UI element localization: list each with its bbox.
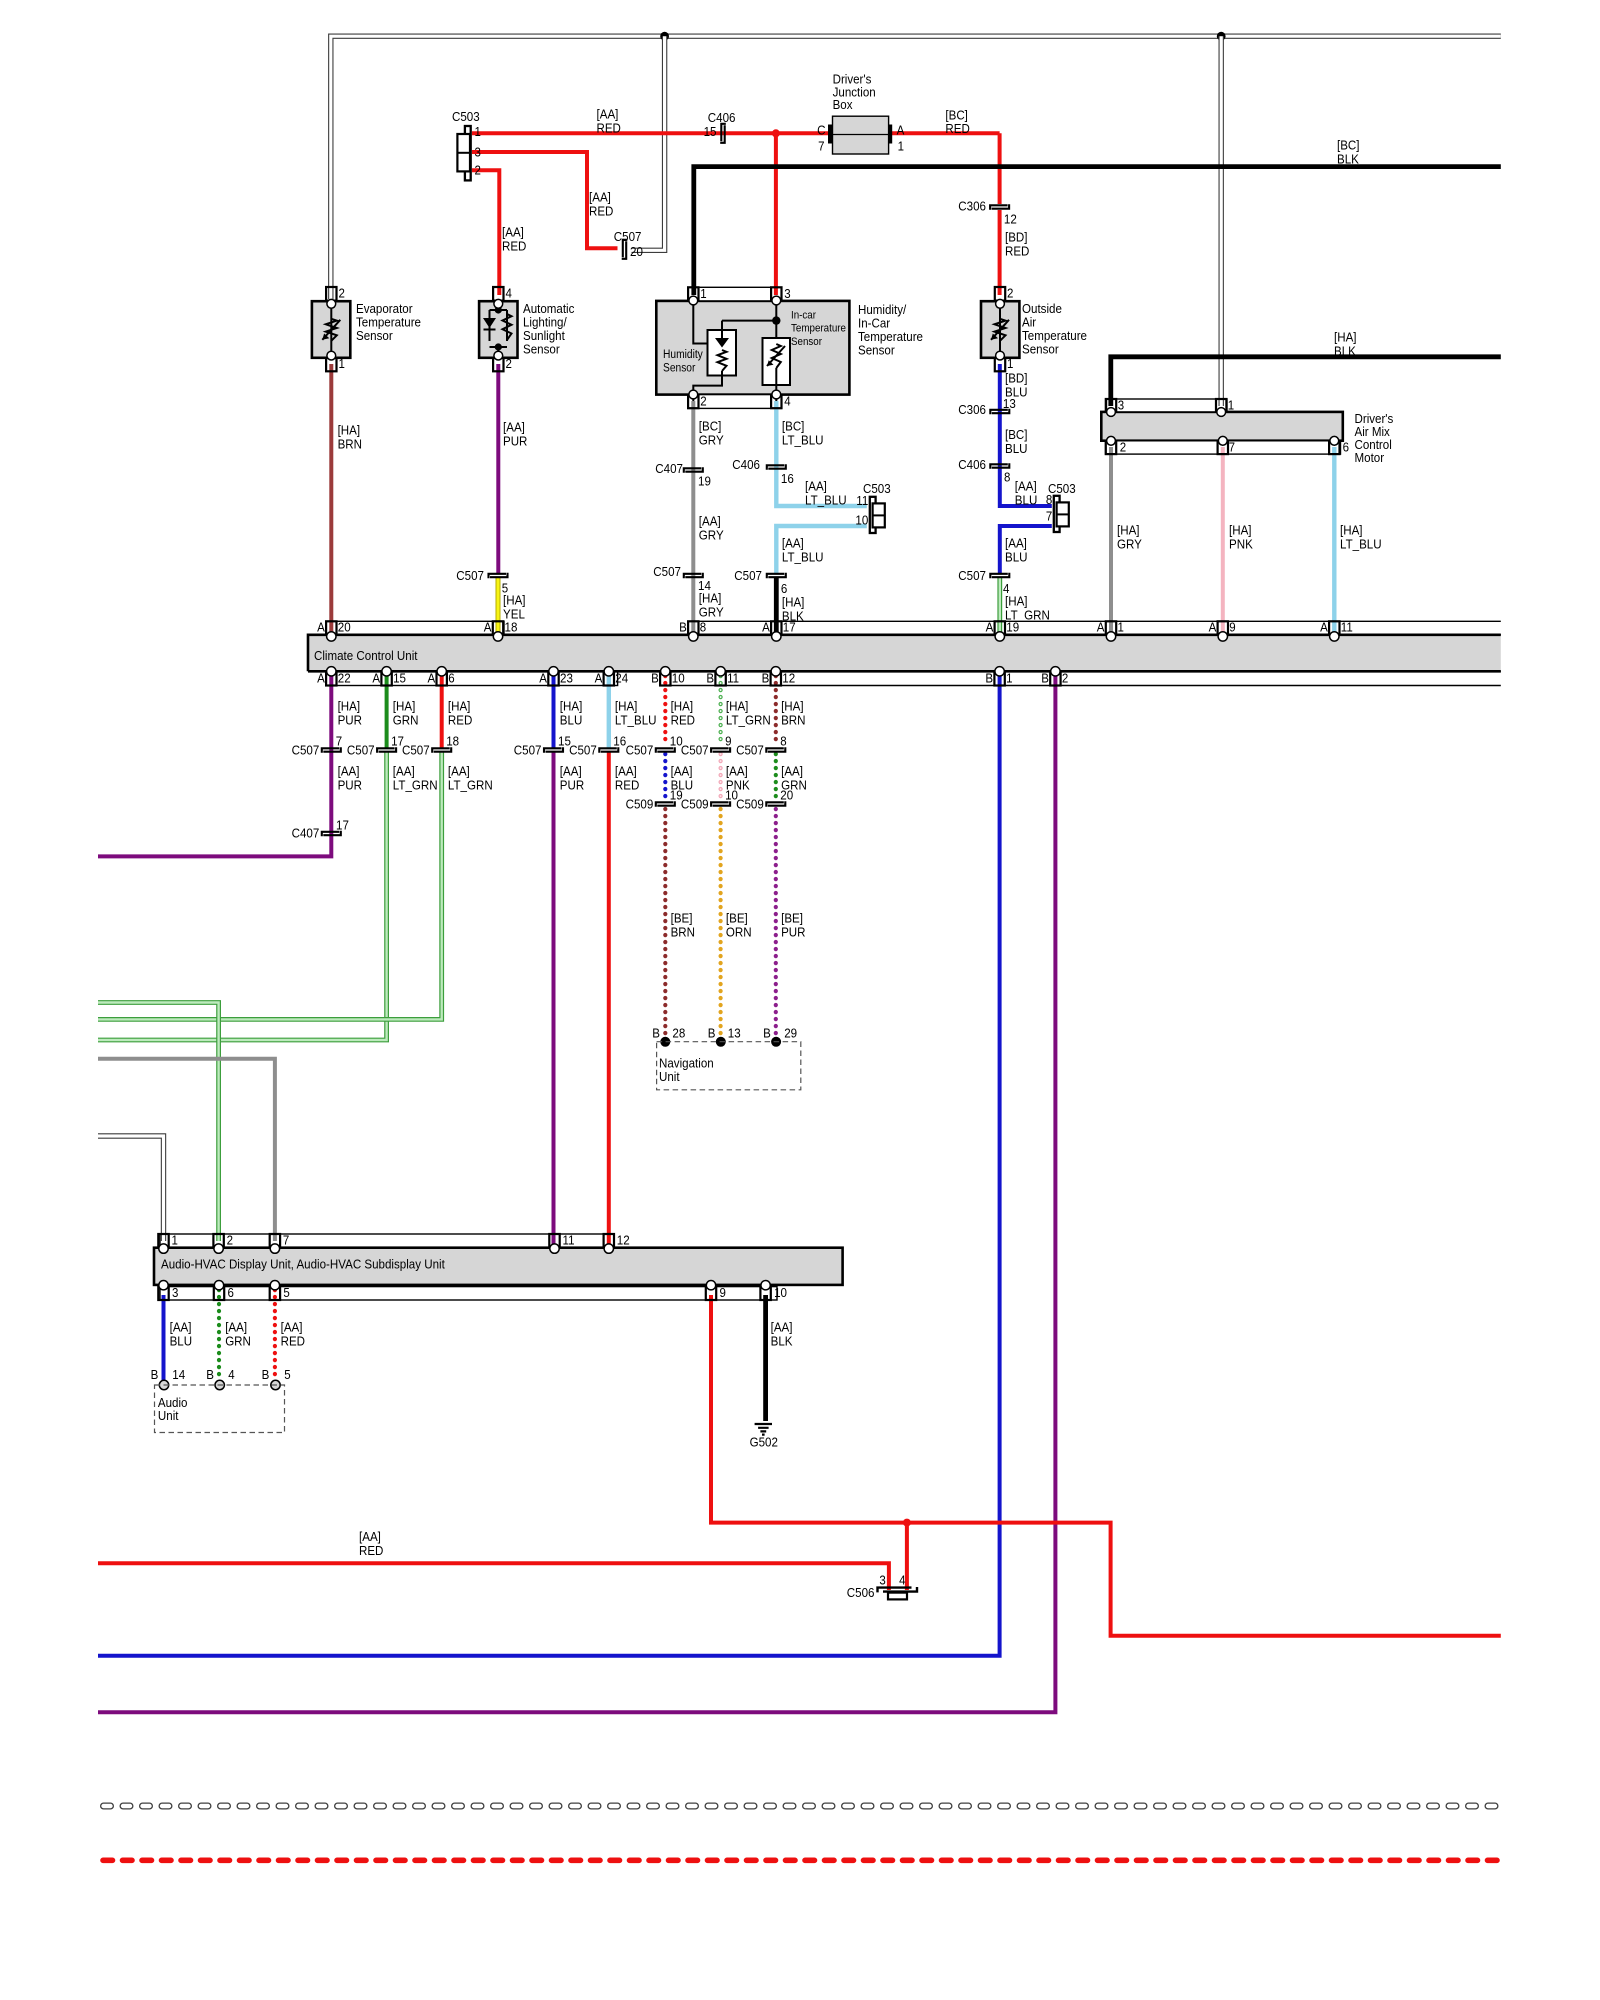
junction dot on white rail at x=1221.2 xyxy=(1217,32,1226,41)
pin strip: air mix motor top xyxy=(1107,399,1228,412)
svg-text:BLK: BLK xyxy=(1337,151,1359,166)
pin circle component (331.3,355.6) xyxy=(327,351,336,360)
svg-text:C406: C406 xyxy=(732,457,760,472)
pin strip: climate control unit bottom-right (B10..B2) xyxy=(660,672,1501,686)
svg-text:C: C xyxy=(817,123,825,138)
audio unit terminal B14 xyxy=(159,1380,168,1389)
svg-text:7: 7 xyxy=(336,734,342,749)
svg-text:Sensor: Sensor xyxy=(356,328,393,343)
svg-text:17: 17 xyxy=(783,620,796,635)
wire GRY from left margin to audio-hvac pin 7 xyxy=(98,1059,275,1241)
pin circle component (1111,412) xyxy=(1107,408,1116,417)
connector C407-19 xyxy=(684,468,702,473)
svg-text:3: 3 xyxy=(879,1573,885,1588)
svg-text:C507: C507 xyxy=(681,743,709,758)
svg-text:3: 3 xyxy=(475,145,481,160)
svg-text:GRY: GRY xyxy=(1117,536,1142,551)
connector C509-10 xyxy=(711,802,729,807)
pin bracket evaporator pin 2 xyxy=(326,287,336,301)
svg-text:B: B xyxy=(706,670,714,685)
pin circle climate bottom x=331.3 xyxy=(327,667,336,676)
pin bracket climate B10 xyxy=(660,672,670,686)
svg-text:Unit: Unit xyxy=(659,1069,680,1084)
connector C507-5 xyxy=(489,574,507,579)
svg-text:23: 23 xyxy=(560,670,573,685)
dotted wire [BE] ORN from C509-10 to navigation unit pin B13 xyxy=(718,809,722,1036)
pin bracket audio-hvac bottom pin 6 xyxy=(214,1287,224,1300)
svg-text:PNK: PNK xyxy=(1229,536,1253,551)
svg-text:BRN: BRN xyxy=(338,436,362,451)
svg-text:6: 6 xyxy=(228,1285,234,1300)
pin circle audio-hvac bottom x=219 xyxy=(214,1281,223,1290)
pin circle climate bottom x=999.6 xyxy=(995,667,1004,676)
pin bracket climate B12 xyxy=(771,672,781,686)
svg-text:B: B xyxy=(1041,670,1049,685)
svg-text:1: 1 xyxy=(898,139,904,154)
pin circle climate top x=776.3 xyxy=(772,632,781,641)
svg-text:10: 10 xyxy=(672,670,685,685)
pin bracket audio-hvac top pin 2 xyxy=(213,1234,223,1248)
connector C507-17 xyxy=(377,748,395,753)
svg-text:GRN: GRN xyxy=(225,1333,251,1348)
pin bracket climate A22 xyxy=(326,672,336,686)
pin circle climate bottom x=386.6 xyxy=(382,667,391,676)
wire [HA] LT_BLU from climate pin A24 to C507-16 xyxy=(607,675,611,748)
dotted wire [HA] BRN from climate pin B12 to C507-8 xyxy=(774,676,778,745)
svg-text:1: 1 xyxy=(700,286,706,301)
svg-text:8: 8 xyxy=(700,620,706,635)
pin circle component (693.3,300.5) xyxy=(689,296,698,305)
junction dot on white rail at x=664.6 xyxy=(660,32,669,41)
pin circle component (498.3,303.8) xyxy=(494,299,503,308)
pin bracket audio-hvac bottom pin 5 xyxy=(270,1287,280,1300)
wire: white double-line power rail from evaporator pin 2 up and across the top xyxy=(331,36,1501,299)
connector C509-19 xyxy=(656,802,674,807)
svg-text:A: A xyxy=(1209,620,1217,635)
svg-text:PUR: PUR xyxy=(781,924,805,939)
svg-text:C507: C507 xyxy=(402,743,430,758)
pin bracket humidity pin 4 xyxy=(771,395,781,409)
pin strip: humidity sensor bottom (pins 2,4) xyxy=(688,395,781,409)
pin bracket climate A17 xyxy=(771,621,781,634)
svg-text:RED: RED xyxy=(281,1333,305,1348)
svg-text:RED: RED xyxy=(502,238,526,253)
junction dot red at (775.9,133.3) xyxy=(772,129,780,137)
wire [BD]/[BC] BLU from outside air sensor pin 1 down, right to C503 pin 8 xyxy=(1000,364,1052,506)
pin circle climate bottom x=1055.4 xyxy=(1051,667,1060,676)
svg-text:B: B xyxy=(763,1026,771,1041)
pin strip: climate control unit bottom-left (A22..A24) xyxy=(326,672,618,686)
svg-text:A: A xyxy=(539,670,547,685)
pin bracket climate B2 xyxy=(1050,672,1060,686)
wire [HA]/[AA] PUR from climate pin A22 down through C507-7 and C407-17, left to margin xyxy=(98,675,331,856)
connector C509-20 xyxy=(766,802,784,807)
svg-text:B: B xyxy=(762,670,770,685)
svg-text:4: 4 xyxy=(899,1573,905,1588)
svg-text:BLK: BLK xyxy=(1334,343,1356,358)
svg-text:4: 4 xyxy=(228,1367,234,1382)
svg-text:6: 6 xyxy=(448,670,454,685)
svg-text:C507: C507 xyxy=(958,568,986,583)
svg-text:1: 1 xyxy=(339,356,345,371)
pin circle component (498.3,355.6) xyxy=(494,351,503,360)
pin circle audio-hvac top x=218.6 xyxy=(214,1244,223,1253)
svg-text:GRN: GRN xyxy=(393,712,419,727)
svg-text:Humidity: Humidity xyxy=(663,349,703,361)
pin circle component (1000,355.6) xyxy=(996,351,1005,360)
wire [HA] BLU from climate pin A23 to C507-15 xyxy=(552,675,556,748)
svg-text:A: A xyxy=(986,620,994,635)
svg-text:RED: RED xyxy=(448,712,472,727)
wire [HA] BRN from evaporator pin 1 to climate pin A20 xyxy=(329,364,333,632)
pin circle component (1221.2,412) xyxy=(1217,408,1226,417)
svg-text:Sensor: Sensor xyxy=(858,343,895,358)
svg-text:5: 5 xyxy=(283,1285,289,1300)
svg-text:C306: C306 xyxy=(958,199,986,214)
svg-text:A: A xyxy=(372,670,380,685)
svg-text:C406: C406 xyxy=(708,110,736,125)
pin bracket climate A23 xyxy=(548,672,558,686)
wire [AA] BLU from C503 pin 7 left and down to C507-4 xyxy=(1000,526,1052,573)
connector C306-12 xyxy=(990,205,1008,210)
wire: white double-line drop from rail to air mix motor pin 1 xyxy=(1218,36,1223,406)
svg-text:C306: C306 xyxy=(958,402,986,417)
svg-text:12: 12 xyxy=(1004,211,1017,226)
svg-text:C507: C507 xyxy=(456,568,484,583)
pin bracket automatic lighting pin 4 xyxy=(493,287,503,301)
svg-text:C509: C509 xyxy=(626,797,654,812)
pin circle climate top x=999.8 xyxy=(995,632,1004,641)
connector C407-17 xyxy=(322,832,340,837)
navigation unit terminal B13 xyxy=(716,1037,726,1047)
svg-text:Climate Control Unit: Climate Control Unit xyxy=(314,648,418,663)
svg-text:11: 11 xyxy=(1341,620,1353,635)
svg-text:1: 1 xyxy=(475,124,481,139)
pin circle component (1334.3,440.8) xyxy=(1330,436,1339,445)
svg-text:Box: Box xyxy=(833,97,853,112)
svg-text:BLU: BLU xyxy=(1015,492,1038,507)
pin circle climate top x=693.3 xyxy=(689,632,698,641)
pin bracket climate A19 xyxy=(995,621,1005,634)
connector C506 pins 3,4 xyxy=(878,1588,912,1593)
svg-text:C509: C509 xyxy=(736,797,764,812)
in-car temperature sensor element inside humidity box xyxy=(763,338,791,385)
svg-text:BLU: BLU xyxy=(1005,549,1028,564)
pin circle component (693.3,394.5) xyxy=(689,390,698,399)
svg-text:C507: C507 xyxy=(292,743,320,758)
svg-text:A: A xyxy=(897,123,905,138)
svg-text:BRN: BRN xyxy=(781,712,805,727)
pin circle audio-hvac top x=554.5 xyxy=(550,1244,559,1253)
svg-text:22: 22 xyxy=(338,670,351,685)
svg-text:12: 12 xyxy=(617,1232,630,1247)
connector C507-9 xyxy=(711,748,729,753)
pin bracket audio-hvac bottom pin 3 xyxy=(158,1287,168,1300)
svg-text:C507: C507 xyxy=(736,743,764,758)
svg-text:24: 24 xyxy=(615,670,628,685)
svg-text:1: 1 xyxy=(1228,397,1234,412)
svg-text:LT_BLU: LT_BLU xyxy=(782,549,824,564)
audio unit terminal B5 xyxy=(271,1380,280,1389)
pin bracket outside air pin 1 xyxy=(995,358,1005,372)
pin bracket climate B8 xyxy=(688,621,698,634)
pin bracket climate A20 xyxy=(326,621,336,634)
svg-text:15: 15 xyxy=(393,670,406,685)
svg-text:5: 5 xyxy=(284,1367,290,1382)
connector C406-16 xyxy=(767,465,785,470)
connector C507-18 xyxy=(432,748,450,753)
pin strip: audio-hvac top xyxy=(160,1234,614,1248)
pin circle component (331.3,303.8) xyxy=(327,299,336,308)
svg-text:B: B xyxy=(679,620,687,635)
pin bracket climate A18 xyxy=(493,621,503,634)
connector C507-14 xyxy=(684,574,702,579)
svg-text:Temperature: Temperature xyxy=(791,323,846,335)
svg-text:8: 8 xyxy=(1004,470,1010,485)
svg-text:BRN: BRN xyxy=(671,924,695,939)
svg-text:18: 18 xyxy=(505,620,518,635)
wire [AA] RED from C503 pin 2 down to automatic lighting sensor pin 4 xyxy=(472,170,499,295)
thermistor symbol inside evaporator temperature sensor xyxy=(330,304,332,356)
pin circle component (1111,440.8) xyxy=(1107,436,1116,445)
svg-text:C506: C506 xyxy=(847,1585,875,1600)
svg-text:20: 20 xyxy=(338,620,351,635)
connector C503 (joint) top-left with pins 1,3,2 xyxy=(465,126,471,180)
svg-text:7: 7 xyxy=(818,139,824,154)
pin bracket outside air pin 2 xyxy=(995,287,1005,301)
svg-text:PUR: PUR xyxy=(338,712,362,727)
svg-text:3: 3 xyxy=(172,1285,178,1300)
svg-text:PUR: PUR xyxy=(503,433,527,448)
svg-text:LT_BLU: LT_BLU xyxy=(615,712,657,727)
wire RED from audio-hvac pin 9 down, right, down, right to page edge xyxy=(711,1295,1501,1636)
svg-text:11: 11 xyxy=(727,670,739,685)
svg-text:3: 3 xyxy=(1118,397,1124,412)
dotted wire [AA] PNK from C507-9 to C509-10 xyxy=(718,754,722,799)
svg-text:11: 11 xyxy=(856,493,868,508)
svg-text:C507: C507 xyxy=(626,743,654,758)
svg-text:8: 8 xyxy=(780,734,786,749)
wire [AA] RED long horizontal from left margin to C506 pin 3 xyxy=(98,1563,889,1590)
pin circle audio-hvac bottom x=711 xyxy=(706,1281,715,1290)
svg-text:PUR: PUR xyxy=(338,777,362,792)
wire [AA] PUR from automatic lighting pin 2 down to C507-5 xyxy=(496,364,500,573)
svg-text:16: 16 xyxy=(781,471,794,486)
svg-text:2: 2 xyxy=(475,163,481,178)
svg-text:16: 16 xyxy=(613,734,626,749)
svg-text:13: 13 xyxy=(728,1026,741,1041)
svg-text:RED: RED xyxy=(359,1543,383,1558)
dotted wire [BE] BRN from C509-19 to navigation unit pin B28 xyxy=(663,809,667,1036)
wire [HA] YEL from C507-5 to climate pin A18 xyxy=(496,578,501,634)
svg-text:1: 1 xyxy=(1118,620,1124,635)
pin bracket humidity pin 3 xyxy=(771,287,781,301)
pin bracket motor pin 2 xyxy=(1106,441,1116,454)
wire [BC] RED from junction box pin A1 to corner and down to C306-12 xyxy=(892,131,1000,135)
wire [AA] LT_GRN from C507-18 down and left to margin xyxy=(98,752,442,1019)
pin bracket climate B11 xyxy=(715,672,725,686)
svg-text:LT_GRN: LT_GRN xyxy=(726,712,771,727)
wire [BC]/[AA] LT_BLU from humidity pin 4 down, right to C503 pin 11 xyxy=(776,401,867,506)
svg-text:3: 3 xyxy=(784,286,790,301)
svg-text:LT_GRN: LT_GRN xyxy=(393,777,438,792)
svg-text:20: 20 xyxy=(630,244,643,259)
svg-text:2: 2 xyxy=(1062,670,1068,685)
wire [AA] PUR from C507-15 down to audio-hvac pin 11 xyxy=(552,752,556,1244)
junction box pin A1 bracket xyxy=(888,125,892,144)
svg-text:B: B xyxy=(652,1026,660,1041)
svg-text:2: 2 xyxy=(1007,286,1013,301)
wire [AA] RED from C503 pin 1 through C406-15 to driver's junction box pin C7 xyxy=(472,131,829,135)
svg-text:In-car: In-car xyxy=(791,310,816,322)
svg-text:6: 6 xyxy=(1343,440,1349,455)
svg-text:2: 2 xyxy=(1120,440,1126,455)
wire [AA] RED from C507-16 down to audio-hvac pin 12 xyxy=(607,752,611,1244)
svg-text:1: 1 xyxy=(1006,670,1012,685)
wire [HA] GRY from motor pin 2 to climate pin A1 xyxy=(1109,447,1113,632)
svg-text:2: 2 xyxy=(227,1232,233,1247)
pin bracket climate A1 xyxy=(1106,621,1116,634)
svg-text:RED: RED xyxy=(671,712,695,727)
svg-text:C406: C406 xyxy=(958,457,986,472)
svg-text:PUR: PUR xyxy=(560,777,584,792)
connector C406-8 xyxy=(990,464,1008,469)
lane divider: red dashed line xyxy=(103,1858,1500,1864)
wire [HA] LT_GRN from C507-4 down to climate pin A19 xyxy=(997,578,1002,632)
connector C503 (joint) right with pins 8,7 xyxy=(1054,496,1060,532)
svg-text:C507: C507 xyxy=(514,743,542,758)
svg-text:C507: C507 xyxy=(347,743,375,758)
svg-text:15: 15 xyxy=(704,124,717,139)
wire [BC] BLK from humidity sensor pin 1 up and right to page edge xyxy=(694,167,1501,295)
svg-text:14: 14 xyxy=(172,1367,185,1382)
svg-text:2: 2 xyxy=(506,356,512,371)
pin strip: climate control unit top-right (B8..A11) xyxy=(688,621,1501,634)
svg-text:C407: C407 xyxy=(655,461,683,476)
dotted wire [AA] GRN from C507-8 to C509-20 xyxy=(774,754,778,799)
pin bracket audio-hvac top pin 12 xyxy=(604,1234,614,1248)
wire [HA] BLK from C507-6 down to climate pin A17 xyxy=(774,578,779,632)
svg-text:12: 12 xyxy=(782,670,795,685)
svg-text:A: A xyxy=(1097,620,1105,635)
pin bracket motor pin 7 xyxy=(1218,441,1228,454)
pin circle climate bottom x=720.6 xyxy=(716,667,725,676)
svg-text:Audio-HVAC Display Unit, Audio: Audio-HVAC Display Unit, Audio-HVAC Subd… xyxy=(161,1257,445,1272)
svg-text:19: 19 xyxy=(698,474,711,489)
audio unit terminal B4 xyxy=(215,1380,224,1389)
svg-text:19: 19 xyxy=(1006,620,1019,635)
svg-text:BLU: BLU xyxy=(1005,384,1028,399)
component box: Driver's Air Mix Control Motor xyxy=(1101,412,1343,441)
pin bracket audio-hvac bottom pin 10 xyxy=(760,1287,770,1300)
pin circle climate top x=331.3 xyxy=(327,632,336,641)
lane divider: grey oval dashed line xyxy=(104,1803,1501,1810)
svg-text:C503: C503 xyxy=(452,109,480,124)
svg-text:B: B xyxy=(651,670,659,685)
pin circle climate bottom x=665.3 xyxy=(661,667,670,676)
svg-text:1: 1 xyxy=(172,1232,178,1247)
pin circle audio-hvac top x=163.5 xyxy=(159,1244,168,1253)
svg-text:RED: RED xyxy=(589,203,613,218)
pin bracket audio-hvac top pin 1 xyxy=(158,1234,168,1248)
svg-text:1: 1 xyxy=(1007,356,1013,371)
pin bracket automatic lighting pin 2 xyxy=(493,358,503,372)
component box: Outside Air Temperature Sensor xyxy=(981,301,1019,358)
connector C507-16 xyxy=(599,748,617,753)
pin circle climate bottom x=775.8 xyxy=(771,667,780,676)
pin bracket motor pin 3 xyxy=(1106,399,1116,412)
svg-text:C509: C509 xyxy=(681,797,709,812)
svg-text:17: 17 xyxy=(336,818,349,833)
svg-text:A: A xyxy=(317,620,325,635)
connector C503 (joint) mid with pins 11,10 xyxy=(870,497,876,533)
pin circle climate bottom x=553.5 xyxy=(549,667,558,676)
pin bracket audio-hvac top pin 11 xyxy=(549,1234,559,1248)
connector C507-10 xyxy=(656,748,674,753)
wire BLU from climate pin B1 down and left to margin xyxy=(98,675,1000,1656)
pin circle climate top x=1222.8 xyxy=(1218,632,1227,641)
svg-text:B: B xyxy=(151,1367,159,1382)
svg-text:GRY: GRY xyxy=(699,527,724,542)
svg-text:RED: RED xyxy=(597,120,621,135)
pin bracket humidity pin 2 xyxy=(688,395,698,409)
svg-text:29: 29 xyxy=(784,1026,797,1041)
pin circle climate top x=1334.3 xyxy=(1330,632,1339,641)
svg-text:BLU: BLU xyxy=(1005,441,1028,456)
pin circle component (776.3,300.5) xyxy=(772,296,781,305)
wire PUR from climate pin B2 down and left to margin xyxy=(98,675,1055,1712)
pin circle audio-hvac bottom x=163.5 xyxy=(159,1281,168,1290)
connector C406-15 (inline on [AA] RED) xyxy=(721,124,726,142)
audio unit dashed box xyxy=(155,1385,285,1433)
svg-text:C407: C407 xyxy=(292,826,320,841)
svg-text:Sensor: Sensor xyxy=(1022,342,1059,357)
pin bracket audio-hvac top pin 7 xyxy=(270,1234,280,1248)
pin circle component (776.3,394.5) xyxy=(772,390,781,399)
wire [AA] LT_GRN from C507-17 down and left to margin xyxy=(98,752,387,1040)
svg-text:A: A xyxy=(1320,620,1328,635)
wire [AA] LT_BLU from C503 pin 10 left and down to C507-6 xyxy=(776,526,867,573)
svg-text:RED: RED xyxy=(945,121,969,136)
svg-text:A: A xyxy=(484,620,492,635)
svg-text:8: 8 xyxy=(1046,492,1052,507)
svg-text:GRY: GRY xyxy=(699,604,724,619)
dotted wire [HA] LT_GRN from climate pin B11 to C507-9 xyxy=(718,676,722,745)
svg-text:BLU: BLU xyxy=(170,1333,193,1348)
pin bracket climate A15 xyxy=(381,672,391,686)
svg-text:2: 2 xyxy=(339,286,345,301)
pin bracket motor pin 6 xyxy=(1329,441,1339,454)
svg-text:11: 11 xyxy=(563,1232,575,1247)
navigation unit terminal B29 xyxy=(771,1037,781,1047)
pin strip: climate control unit top-left (A20..A18) xyxy=(326,621,504,634)
connector C507-4 xyxy=(990,574,1008,579)
wire [HA] RED from climate pin A6 to C507-18 xyxy=(440,675,444,748)
pin bracket climate B1 xyxy=(994,672,1004,686)
pin circle climate top x=498 xyxy=(493,632,502,641)
svg-text:28: 28 xyxy=(672,1026,685,1041)
svg-text:Sensor: Sensor xyxy=(663,363,696,375)
pin circle audio-hvac bottom x=274.9 xyxy=(270,1281,279,1290)
svg-text:G502: G502 xyxy=(750,1435,778,1450)
connector C306-13 xyxy=(990,410,1008,415)
svg-text:C507: C507 xyxy=(653,564,681,579)
pin bracket humidity pin 1 xyxy=(688,287,698,301)
Audio-HVAC Display Unit bar xyxy=(154,1248,843,1285)
pin bracket motor pin 1 xyxy=(1216,399,1226,412)
svg-text:A: A xyxy=(428,670,436,685)
svg-text:A: A xyxy=(762,620,770,635)
